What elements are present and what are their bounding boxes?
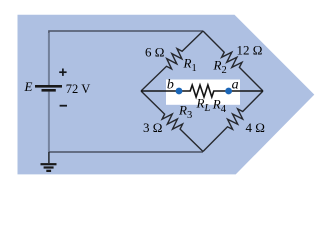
wire battery negative lead [48, 92, 50, 152]
resistor R1 (6 ohm) branch: left apex to top apex [141, 31, 203, 91]
ground [41, 152, 57, 172]
battery E long plate [35, 85, 62, 88]
svg-text:6 Ω: 6 Ω [145, 44, 164, 59]
label + [59, 69, 66, 76]
svg-text:12 Ω: 12 Ω [237, 42, 263, 57]
resistor RL branch: left apex to right apex through nodes b and a [141, 85, 263, 97]
svg-text:4 Ω: 4 Ω [246, 120, 265, 135]
svg-text:72 V: 72 V [66, 82, 90, 96]
white band behind RL [166, 80, 240, 105]
battery E short plate [42, 89, 56, 92]
svg-text:a: a [232, 77, 239, 92]
background arrow shape [18, 15, 315, 175]
wire bottom (to bottom apex) [49, 151, 203, 153]
wire top (battery + to top apex) [49, 31, 203, 85]
node a dot [225, 88, 232, 95]
svg-text:b: b [167, 77, 174, 92]
resistor R4 (4 ohm) branch: right apex to bottom apex [203, 91, 263, 152]
svg-text:3 Ω: 3 Ω [143, 120, 162, 135]
resistor R2 (12 ohm) branch: top apex to right apex [203, 31, 263, 91]
label minus [60, 105, 67, 107]
node b dot [176, 88, 183, 95]
wire battery positive lead blur [48, 33, 50, 85]
svg-text:E: E [24, 79, 33, 94]
resistor R3 (3 ohm) branch: left apex to bottom apex [141, 91, 203, 152]
